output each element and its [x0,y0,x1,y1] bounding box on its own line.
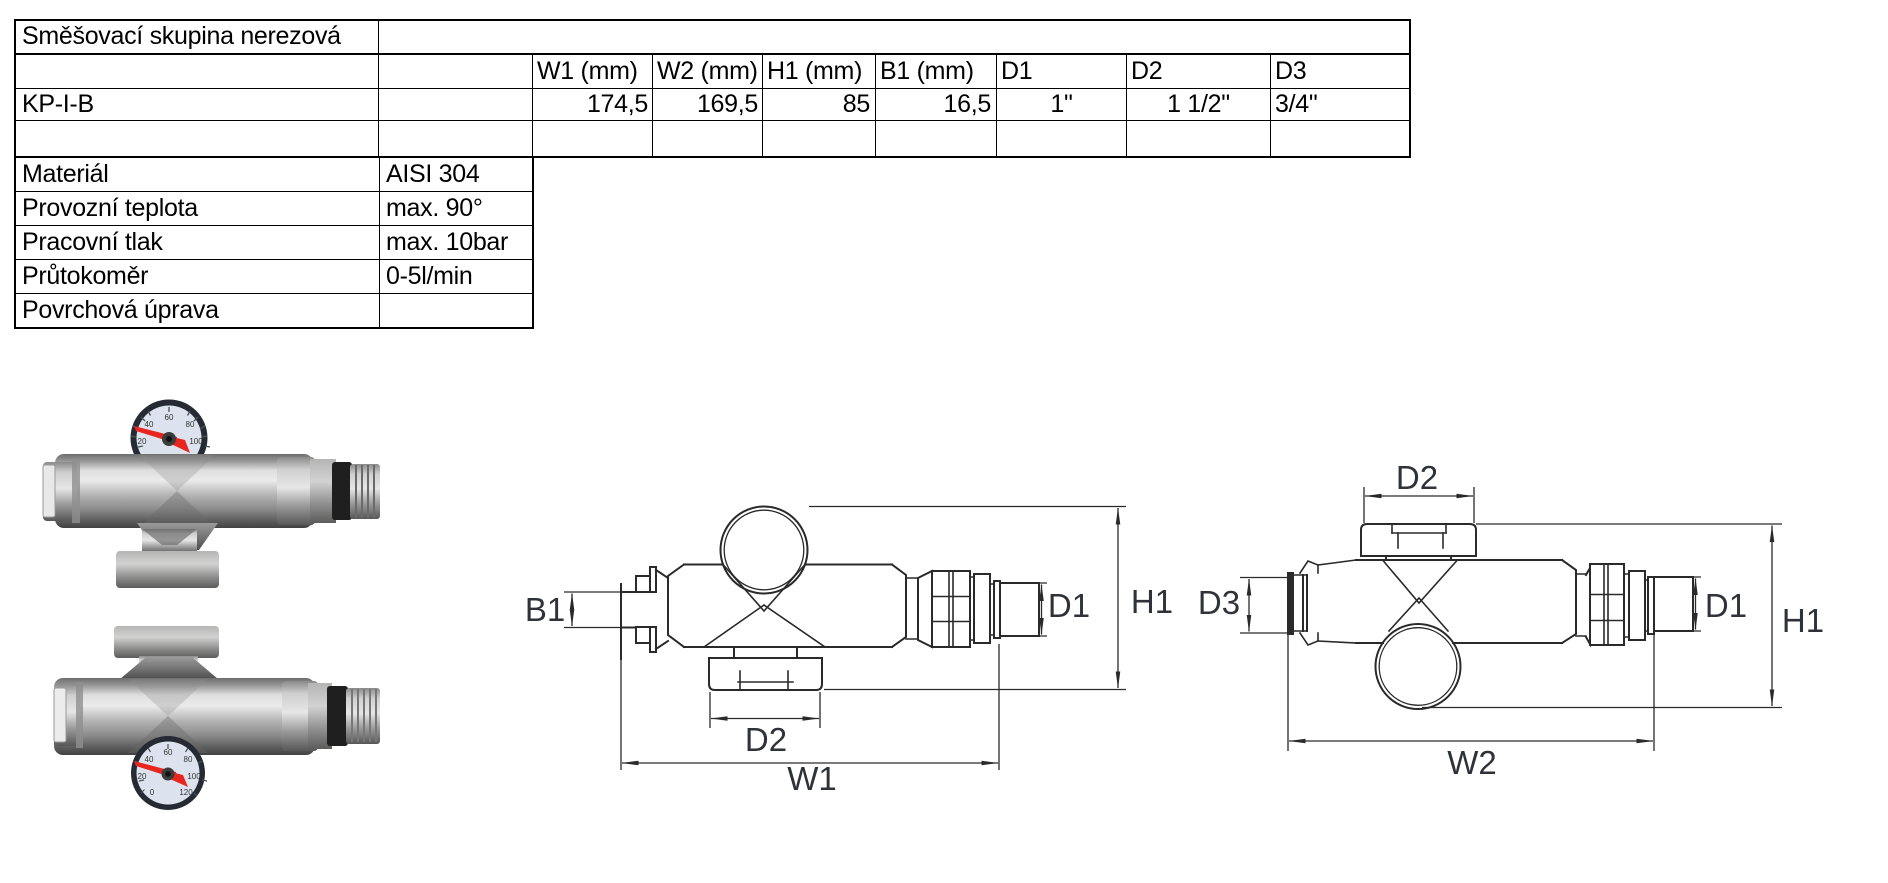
svg-text:20: 20 [138,437,147,446]
svg-text:20: 20 [138,772,147,781]
svg-text:D1: D1 [1705,587,1747,624]
svg-text:H1: H1 [1782,602,1824,639]
svg-text:80: 80 [186,420,195,429]
svg-text:100: 100 [187,772,201,781]
svg-text:H1: H1 [1131,583,1173,620]
svg-text:40: 40 [145,755,154,764]
svg-text:120: 120 [179,788,193,797]
svg-text:40: 40 [145,420,154,429]
svg-text:80: 80 [184,755,193,764]
svg-text:D2: D2 [1396,459,1438,496]
svg-text:100: 100 [189,437,203,446]
svg-text:D1: D1 [1048,587,1090,624]
svg-text:0: 0 [150,788,155,797]
svg-text:W2: W2 [1447,744,1497,781]
svg-text:W1: W1 [787,760,837,797]
svg-text:60: 60 [165,413,174,422]
svg-text:B1: B1 [525,591,565,628]
svg-text:D3: D3 [1198,584,1240,621]
svg-text:D2: D2 [745,721,787,758]
svg-text:60: 60 [164,748,173,757]
